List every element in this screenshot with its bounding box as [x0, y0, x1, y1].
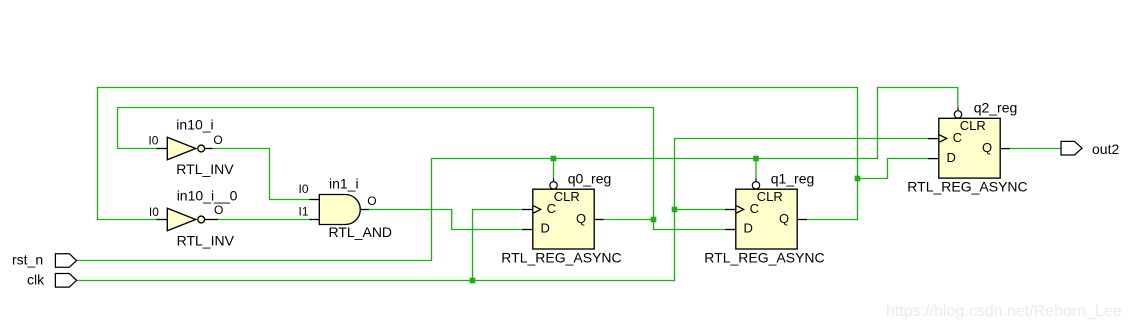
svg-text:clk: clk — [27, 271, 45, 287]
q2_reg CLR pin stub — [957, 108, 959, 111]
svg-text:C: C — [547, 201, 556, 216]
junction q1.Q / q2.D branch — [855, 176, 861, 182]
q0_reg clock triangle — [534, 206, 541, 213]
svg-text:D: D — [744, 221, 753, 236]
junction clk / q1_reg C — [672, 207, 678, 213]
svg-text:RTL_AND: RTL_AND — [329, 224, 393, 240]
svg-text:I0: I0 — [149, 205, 159, 219]
svg-text:I0: I0 — [299, 182, 309, 196]
svg-text:O: O — [214, 203, 223, 217]
wire net q0_reg.Q feedback rail to in10_i and q1_reg D — [118, 108, 726, 230]
svg-text:in10_i__0: in10_i__0 — [177, 187, 238, 203]
flip-flop q2_reg body — [939, 118, 1000, 178]
wire branch clk to q0_reg C — [473, 210, 523, 281]
wire net rst_n to CLR rail — [77, 88, 958, 261]
input port clk — [55, 274, 76, 288]
pin stub in10_i input — [157, 148, 169, 150]
pin stub in1_i output — [360, 209, 369, 211]
q0_reg CLR pin stub — [553, 179, 555, 182]
wire branch CLR to q1_reg — [755, 159, 757, 179]
svg-text:rst_n: rst_n — [12, 252, 43, 268]
svg-text:CLR: CLR — [554, 189, 580, 204]
wire net clk rail — [77, 139, 929, 281]
svg-text:https://blog.csdn.net/Reborn_L: https://blog.csdn.net/Reborn_Lee — [886, 303, 1122, 320]
svg-text:RTL_REG_ASYNC: RTL_REG_ASYNC — [907, 179, 1027, 195]
pin stub q2_reg D — [928, 158, 939, 160]
pin stub q0_reg D — [522, 229, 533, 231]
pin stub q1_reg Q — [797, 219, 807, 221]
svg-text:RTL_REG_ASYNC: RTL_REG_ASYNC — [501, 250, 621, 266]
pin stub in10_i__0 output — [205, 219, 219, 221]
wire in10_i__0 output to in1_i I1 — [218, 219, 309, 221]
output port out2 — [1061, 141, 1082, 155]
inverter in10_i__0 body — [167, 208, 195, 231]
junction CLR rail / q1_reg — [753, 156, 759, 162]
svg-text:O: O — [367, 194, 376, 208]
svg-text:out2: out2 — [1092, 141, 1119, 157]
wire net q1_reg.Q feedback rail to in10_i__0 — [98, 88, 858, 220]
q1_reg clock triangle — [737, 206, 744, 213]
inverter in10_i body — [167, 137, 195, 160]
pin stub q0_reg Q — [594, 219, 604, 221]
pin stub in10_i output — [205, 148, 213, 150]
svg-text:CLR: CLR — [757, 189, 783, 204]
pin stub q1_reg D — [725, 229, 736, 231]
inverter in10_i__0 bubble — [198, 216, 205, 223]
svg-text:D: D — [541, 221, 550, 236]
svg-text:D: D — [947, 150, 956, 165]
junction CLR rail / q0_reg — [551, 156, 557, 162]
wire branch clk to q1_reg C — [675, 209, 726, 211]
pin stub in1_i I0 — [309, 199, 320, 201]
wire in10_i output to in1_i I0 — [212, 149, 309, 200]
pin stub q0_reg C — [522, 209, 533, 211]
svg-text:q0_reg: q0_reg — [568, 170, 612, 186]
svg-text:I0: I0 — [148, 133, 158, 147]
svg-text:Q: Q — [779, 211, 789, 226]
wire in1_i output to q0_reg D — [369, 210, 523, 230]
flip-flop q0_reg body — [533, 189, 594, 249]
flip-flop q1_reg body — [736, 189, 797, 249]
svg-text:CLR: CLR — [960, 118, 986, 133]
svg-text:C: C — [750, 201, 759, 216]
svg-text:in1_i: in1_i — [329, 176, 359, 192]
q2_reg clock triangle — [940, 135, 947, 142]
svg-text:RTL_INV: RTL_INV — [177, 232, 235, 248]
svg-text:q2_reg: q2_reg — [974, 100, 1018, 116]
junction q0.Q on rail — [651, 217, 657, 223]
svg-text:q1_reg: q1_reg — [771, 170, 815, 186]
wire q2_reg.Q to out2 — [1010, 148, 1062, 150]
q1_reg CLR pin stub — [755, 179, 757, 182]
wire q0_reg.Q output segment — [604, 219, 653, 221]
svg-text:RTL_INV: RTL_INV — [176, 161, 234, 177]
svg-text:Q: Q — [982, 140, 992, 155]
q2_reg CLR bubble — [954, 111, 961, 118]
pin stub in1_i I1 — [309, 219, 320, 221]
pin stub q2_reg Q — [1000, 148, 1010, 150]
q0_reg CLR bubble — [550, 182, 557, 189]
q1_reg CLR bubble — [752, 182, 759, 189]
input port rst_n — [55, 254, 76, 268]
junction clk / q0_reg C — [470, 278, 476, 284]
pin stub q1_reg C — [725, 209, 736, 211]
svg-text:I1: I1 — [299, 205, 309, 219]
svg-text:Q: Q — [576, 211, 586, 226]
and gate in1_i body — [319, 195, 360, 225]
svg-text:O: O — [213, 133, 222, 147]
wire branch CLR to q0_reg — [553, 159, 555, 179]
wire branch q1_reg.Q to q2_reg D — [858, 159, 929, 179]
svg-text:C: C — [953, 130, 962, 145]
svg-text:RTL_REG_ASYNC: RTL_REG_ASYNC — [704, 250, 824, 266]
svg-text:in10_i: in10_i — [176, 117, 213, 133]
pin stub q2_reg C — [928, 138, 939, 140]
inverter in10_i bubble — [198, 145, 205, 152]
pin stub in10_i__0 input — [157, 219, 169, 221]
